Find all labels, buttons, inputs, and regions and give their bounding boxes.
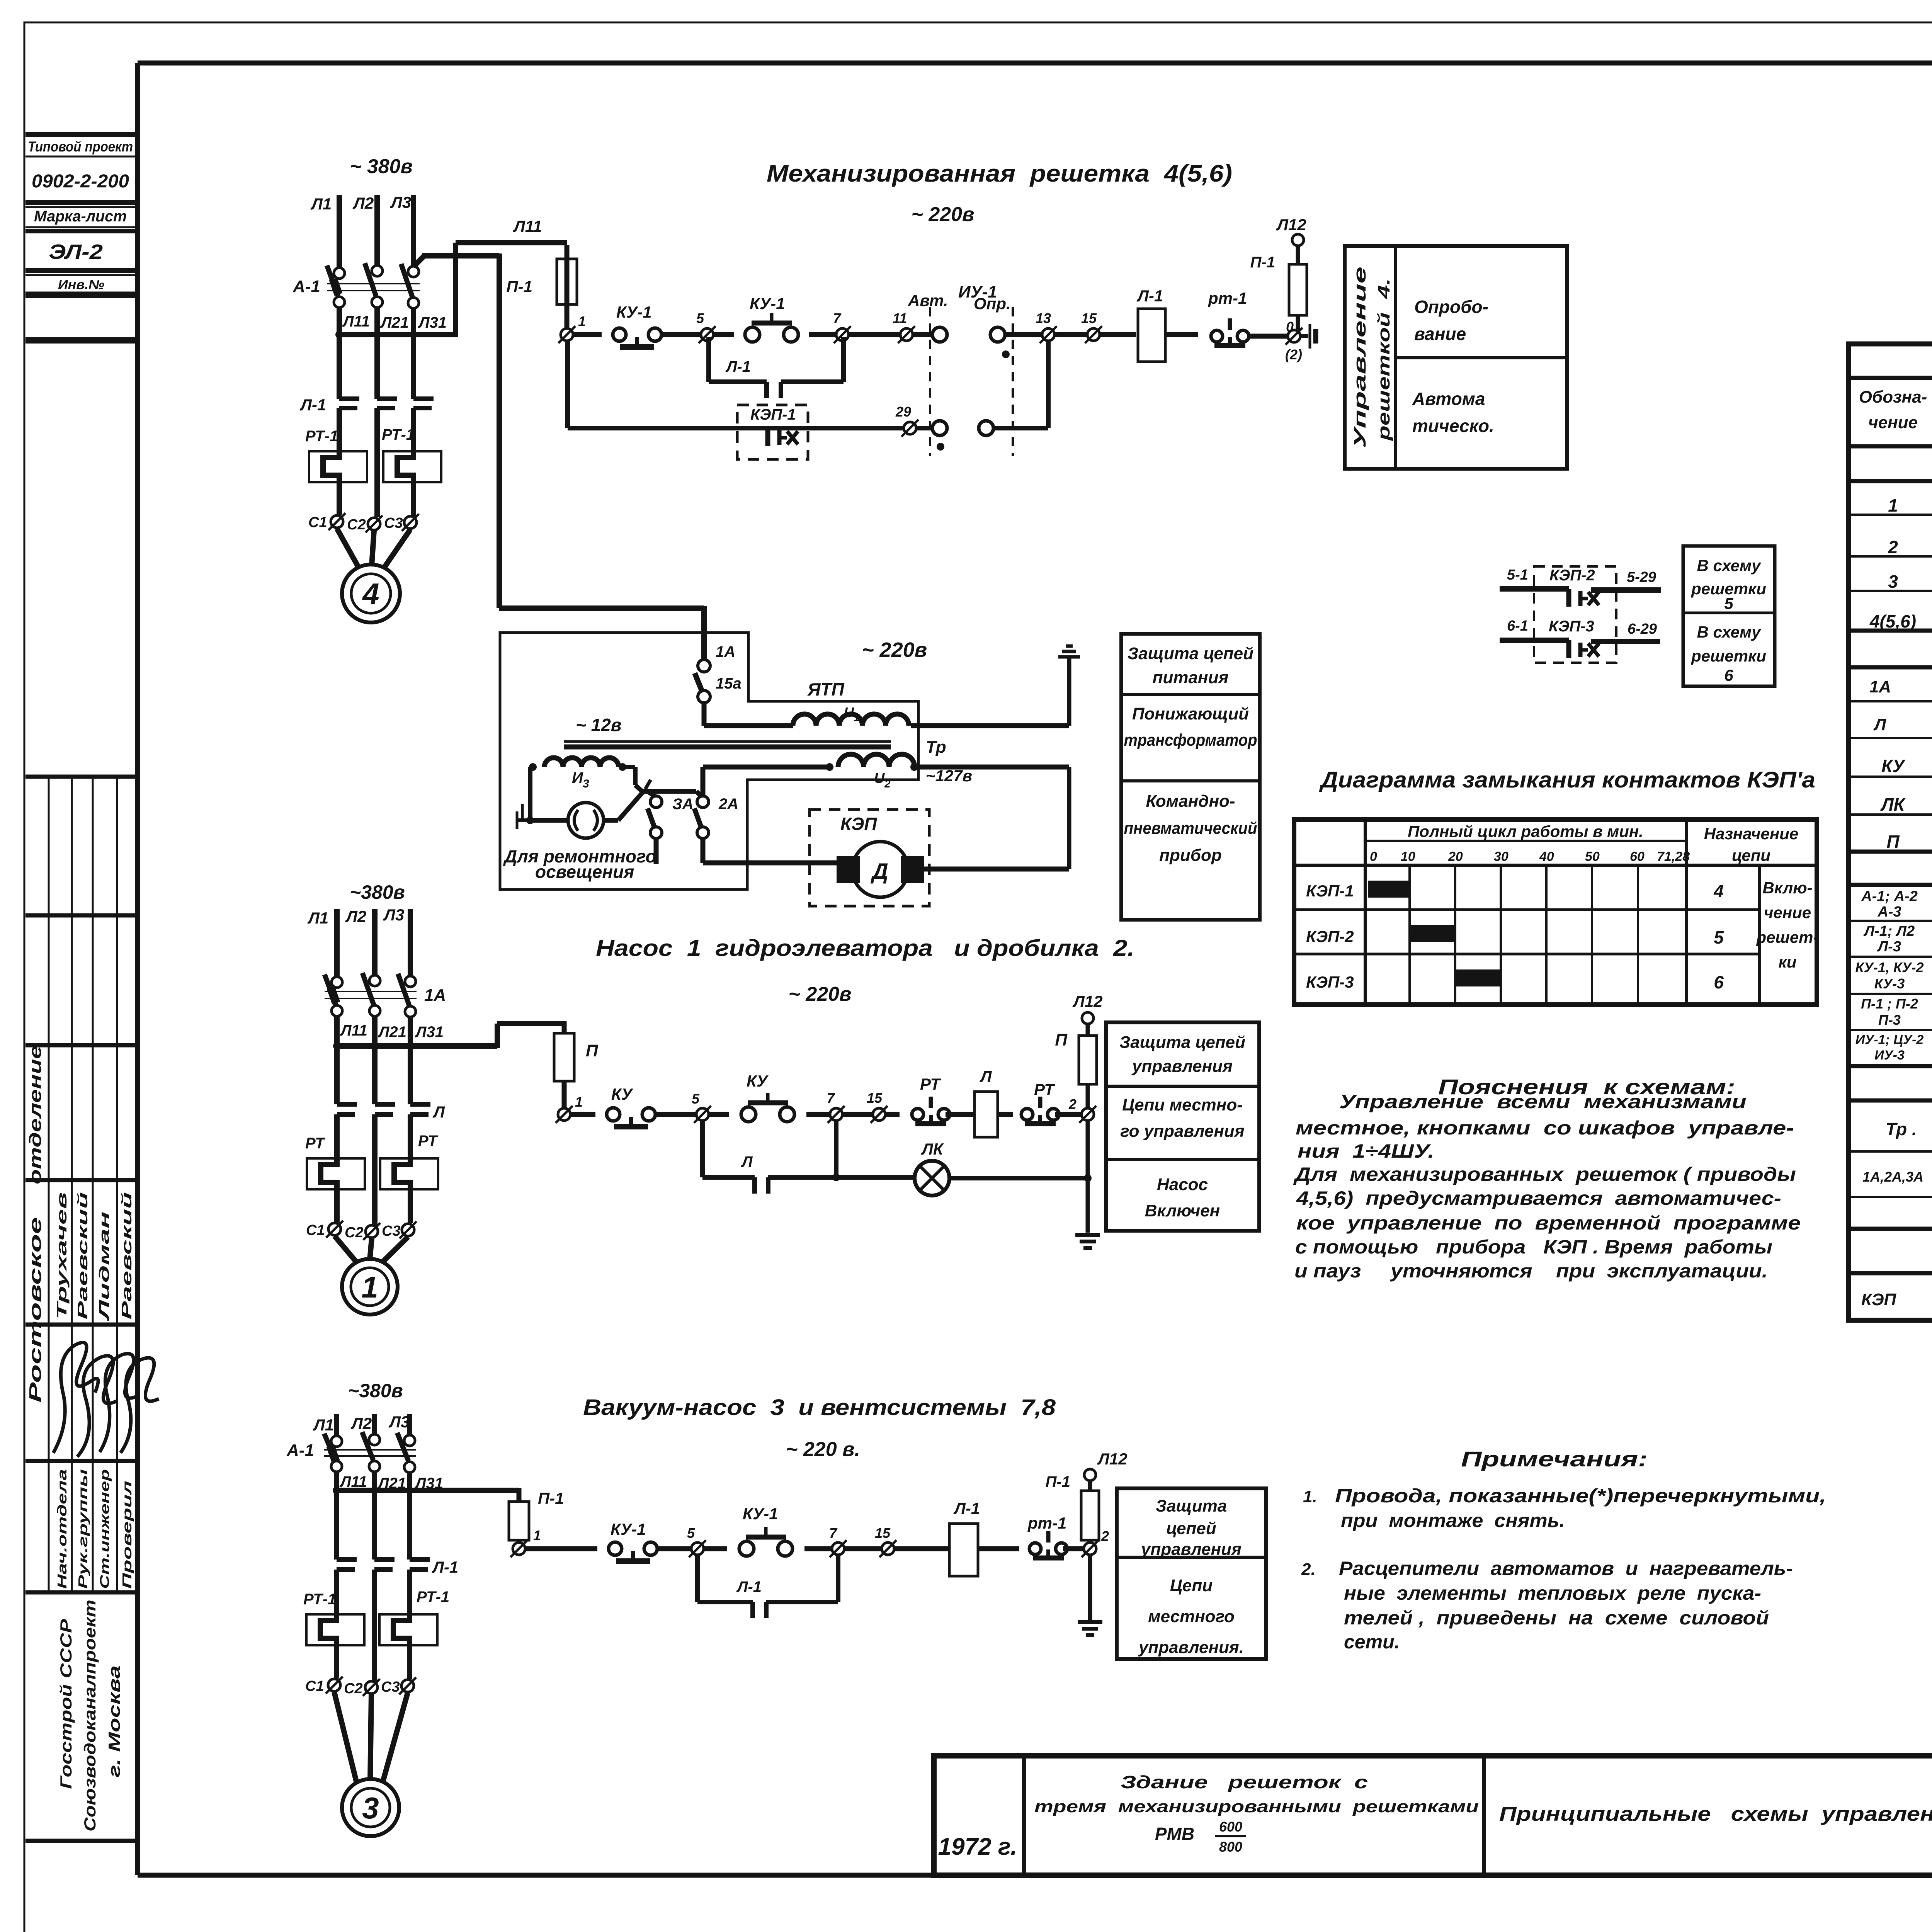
svg-text:Полный цикл работы в мин.: Полный цикл работы в мин. [1408, 822, 1643, 840]
svg-text:Примечания:: Примечания: [1461, 1447, 1648, 1471]
svg-text:Обозна-: Обозна- [1859, 388, 1927, 406]
svg-text:освещения: освещения [535, 862, 634, 882]
svg-text:П: П [586, 1041, 599, 1060]
svg-text:ИУ-1: ИУ-1 [958, 282, 997, 301]
svg-text:Л: Л [980, 1067, 992, 1085]
svg-text:Понижающий: Понижающий [1132, 704, 1249, 723]
svg-text:решеткой 4.: решеткой 4. [1374, 278, 1393, 441]
svg-text:П: П [1055, 1031, 1068, 1049]
svg-text:15а: 15а [716, 675, 742, 692]
svg-text:трансформатор: трансформатор [1124, 731, 1257, 750]
svg-text:Л31: Л31 [418, 314, 447, 331]
svg-text:местное, кнопками со шкафов: местное, кнопками со шкафов управле- [1296, 1117, 1794, 1139]
svg-text:71,28: 71,28 [1657, 849, 1690, 864]
svg-text:цепи: цепи [1732, 846, 1770, 864]
svg-text:П-1: П-1 [538, 1489, 564, 1507]
svg-text:Л3: Л3 [388, 1413, 410, 1431]
svg-text:Л21: Л21 [380, 314, 409, 331]
svg-text:П-1: П-1 [506, 277, 532, 296]
svg-text:11: 11 [893, 310, 907, 326]
svg-text:Л2: Л2 [350, 1414, 372, 1432]
svg-text:Защита цепей: Защита цепей [1119, 1033, 1245, 1052]
svg-text:прибор: прибор [1159, 846, 1222, 865]
svg-text:КУ-1, КУ-2: КУ-1, КУ-2 [1855, 959, 1923, 975]
svg-text:1: 1 [1888, 495, 1898, 515]
svg-text:Назначение: Назначение [1704, 825, 1798, 843]
svg-text:Л-1: Л-1 [432, 1558, 458, 1576]
svg-text:Расцепители автоматов и наг: Расцепители автоматов и нагреватель- [1339, 1558, 1793, 1579]
svg-text:А-1: А-1 [286, 1441, 314, 1460]
svg-text:КЭП-3: КЭП-3 [1549, 618, 1594, 635]
svg-text:Л-3: Л-3 [1877, 939, 1901, 955]
svg-text:РТ-1: РТ-1 [305, 428, 338, 445]
svg-text:С3: С3 [382, 1223, 401, 1239]
svg-text:Л12: Л12 [1276, 216, 1306, 234]
svg-text:РТ: РТ [418, 1133, 439, 1150]
svg-text:управления: управления [1140, 1540, 1242, 1559]
svg-text:7: 7 [827, 1090, 835, 1106]
svg-text:Защита: Защита [1156, 1497, 1227, 1515]
svg-text:В схему: В схему [1697, 556, 1762, 575]
svg-text:вание: вание [1414, 324, 1466, 344]
svg-text:ИУ-1; ЦУ-2: ИУ-1; ЦУ-2 [1855, 1032, 1924, 1047]
svg-text:отделение: отделение [26, 1045, 45, 1184]
svg-text:ЛК: ЛК [921, 1140, 944, 1158]
svg-text:решет-: решет- [1756, 928, 1818, 946]
svg-text:4(5,6): 4(5,6) [1869, 611, 1916, 631]
svg-text:1А: 1А [716, 643, 735, 660]
svg-text:В схему: В схему [1697, 623, 1762, 641]
svg-text:Провода, показанные(*)перечерк: Провода, показанные(*)перечеркнутыми, [1335, 1485, 1826, 1507]
svg-text:С3: С3 [381, 1679, 400, 1695]
svg-text:И: И [572, 769, 583, 786]
svg-text:Л2: Л2 [345, 907, 366, 925]
svg-text:телей , приведены на схеме: телей , приведены на схеме силовой [1344, 1607, 1769, 1629]
svg-text:и пауз уточняются при: и пауз уточняются при эксплуатации. [1294, 1260, 1768, 1282]
svg-text:С1: С1 [306, 1222, 325, 1238]
svg-text:6: 6 [1724, 666, 1733, 684]
svg-text:С3: С3 [384, 515, 403, 531]
svg-text:КУ-3: КУ-3 [1874, 976, 1905, 992]
svg-text:КЭП-2: КЭП-2 [1306, 927, 1354, 946]
svg-text:1: 1 [854, 712, 859, 723]
svg-text:Л-1: Л-1 [953, 1499, 980, 1517]
svg-text:Диаграмма замыкания контактов: Диаграмма замыкания контактов КЭП'а [1319, 767, 1815, 793]
svg-text:15: 15 [875, 1525, 891, 1541]
svg-text:РТ-1: РТ-1 [417, 1588, 449, 1605]
svg-text:П: П [1886, 832, 1900, 852]
svg-text:решетки: решетки [1691, 647, 1766, 665]
svg-text:А-3: А-3 [1877, 904, 1901, 920]
svg-text:Защита цепей: Защита цепей [1128, 644, 1253, 663]
svg-text:5: 5 [1714, 927, 1724, 947]
svg-text:Л-1: Л-1 [299, 396, 326, 414]
svg-text:3: 3 [362, 1791, 379, 1825]
svg-text:4: 4 [362, 577, 379, 611]
svg-text:15: 15 [867, 1090, 883, 1106]
svg-text:цепей: цепей [1166, 1519, 1216, 1538]
svg-text:5: 5 [1724, 594, 1733, 612]
svg-text:Л31: Л31 [415, 1024, 444, 1041]
svg-text:Командно-: Командно- [1146, 792, 1235, 811]
svg-text:5: 5 [696, 310, 704, 326]
svg-text:Нач.отдела: Нач.отдела [55, 1469, 69, 1589]
svg-text:Ростовское: Ростовское [26, 1217, 45, 1403]
svg-text:2: 2 [1068, 1096, 1077, 1112]
svg-text:П-1: П-1 [1250, 254, 1275, 271]
svg-text:тремя механизированными реше: тремя механизированными решетками [1034, 1797, 1479, 1816]
svg-text:Л12: Л12 [1097, 1450, 1128, 1468]
svg-text:Проверил: Проверил [120, 1481, 134, 1589]
svg-text:А-1; А-2: А-1; А-2 [1861, 888, 1918, 905]
svg-text:ЗА: ЗА [672, 796, 694, 813]
svg-text:П-1: П-1 [1046, 1473, 1070, 1490]
svg-text:тическо.: тическо. [1412, 416, 1494, 436]
svg-text:~ 380в: ~ 380в [350, 155, 413, 178]
svg-text:Насос: Насос [1157, 1175, 1208, 1194]
svg-text:Л11: Л11 [340, 1022, 367, 1039]
svg-text:Лидман: Лидман [96, 1211, 112, 1322]
svg-text:КЭП-3: КЭП-3 [1306, 973, 1354, 991]
svg-text:г. Москва: г. Москва [105, 1665, 123, 1777]
svg-text:С1: С1 [305, 1678, 324, 1694]
svg-text:Механизированная решетка 4(5: Механизированная решетка 4(5,6) [767, 160, 1232, 187]
svg-text:кое управление по временной: кое управление по временной программе [1296, 1212, 1801, 1234]
svg-text:чение: чение [1764, 903, 1811, 922]
svg-text:5: 5 [692, 1091, 700, 1107]
svg-text:800: 800 [1219, 1839, 1242, 1855]
svg-text:~ 220в: ~ 220в [862, 638, 927, 662]
svg-text:29: 29 [895, 404, 911, 420]
svg-text:Л-1; Л2: Л-1; Л2 [1863, 923, 1915, 939]
svg-text:сети.: сети. [1344, 1631, 1400, 1653]
svg-text:3: 3 [583, 777, 589, 790]
svg-text:~ 220 в.: ~ 220 в. [786, 1438, 860, 1461]
svg-text:~380в: ~380в [348, 1380, 403, 1401]
svg-text:Л: Л [741, 1153, 753, 1170]
svg-text:Здание решеток с: Здание решеток с [1121, 1772, 1368, 1792]
svg-text:15: 15 [1081, 310, 1097, 326]
svg-text:Для механизированных решеток: Для механизированных решеток ( приводы [1293, 1163, 1796, 1185]
svg-text:Л: Л [432, 1103, 445, 1121]
svg-text:питания: питания [1153, 668, 1229, 687]
svg-text:КЭП: КЭП [840, 814, 877, 834]
svg-text:1: 1 [533, 1527, 541, 1543]
svg-text:Л1: Л1 [307, 909, 328, 927]
svg-text:Рук.группы: Рук.группы [76, 1469, 90, 1589]
svg-text:Госстрой СССР: Госстрой СССР [57, 1619, 75, 1789]
svg-text:2А: 2А [718, 796, 738, 813]
svg-text:Тр .: Тр . [1886, 1119, 1917, 1139]
svg-text:Л12: Л12 [1072, 992, 1103, 1010]
svg-text:ИУ-3: ИУ-3 [1874, 1048, 1905, 1063]
svg-text:5-1: 5-1 [1507, 567, 1528, 583]
svg-text:П-1 ; П-2: П-1 ; П-2 [1861, 996, 1918, 1012]
svg-text:местного: местного [1148, 1607, 1235, 1626]
svg-text:~ 220в: ~ 220в [789, 983, 852, 1005]
svg-text:Л1: Л1 [313, 1416, 334, 1434]
svg-text:С2: С2 [347, 517, 366, 533]
svg-text:С1: С1 [308, 514, 327, 531]
svg-text:КУ-1: КУ-1 [743, 1505, 778, 1523]
svg-text:13: 13 [1036, 310, 1051, 326]
svg-text:КУ: КУ [1881, 756, 1906, 776]
svg-text:4: 4 [1713, 881, 1724, 901]
svg-text:КУ: КУ [611, 1085, 634, 1103]
svg-text:П-3: П-3 [1878, 1012, 1901, 1028]
svg-text:КУ-1: КУ-1 [616, 303, 652, 321]
svg-text:20: 20 [1448, 849, 1463, 864]
svg-text:1.: 1. [1303, 1487, 1317, 1506]
svg-text:управления.: управления. [1138, 1638, 1244, 1657]
svg-text:Управление всеми механизмами: Управление всеми механизмами [1339, 1091, 1747, 1112]
svg-text:Л-1: Л-1 [736, 1578, 762, 1595]
svg-text:Л3: Л3 [390, 193, 411, 211]
svg-text:РТ: РТ [1034, 1080, 1055, 1099]
svg-text:РТ: РТ [305, 1135, 326, 1152]
svg-text:Л11: Л11 [342, 313, 370, 330]
svg-text:Л1: Л1 [310, 195, 332, 213]
svg-text:рт-1: рт-1 [1027, 1514, 1066, 1532]
svg-text:1А: 1А [424, 986, 446, 1005]
svg-text:40: 40 [1539, 849, 1554, 864]
svg-text:30: 30 [1494, 849, 1509, 864]
svg-text:1972 г.: 1972 г. [938, 1833, 1017, 1860]
svg-text:РТ-1: РТ-1 [303, 1591, 336, 1608]
svg-text:КУ-1: КУ-1 [750, 294, 785, 313]
svg-text:ЛК: ЛК [1880, 794, 1906, 815]
svg-text:ЭЛ-2: ЭЛ-2 [49, 240, 103, 264]
svg-text:Трухачев: Трухачев [54, 1192, 70, 1320]
svg-text:Управление: Управление [1350, 267, 1369, 448]
svg-text:Инв.№: Инв.№ [58, 277, 104, 292]
svg-text:Л-1: Л-1 [725, 358, 751, 375]
svg-text:Раевский: Раевский [119, 1192, 134, 1320]
svg-text:Л21: Л21 [378, 1024, 406, 1041]
svg-text:ния 1÷4ШУ.: ния 1÷4ШУ. [1298, 1140, 1434, 1162]
svg-text:1: 1 [575, 1094, 583, 1110]
svg-text:С2: С2 [345, 1225, 364, 1241]
svg-text:3: 3 [1888, 571, 1898, 592]
svg-text:0902-2-200: 0902-2-200 [32, 171, 129, 192]
svg-text:КЭП: КЭП [1861, 1290, 1897, 1309]
svg-text:Л2: Л2 [352, 194, 374, 212]
svg-text:ные элементы тепловых реле: ные элементы тепловых реле пуска- [1344, 1582, 1761, 1604]
svg-text:U: U [874, 770, 885, 786]
svg-text:Вакуум-насос 3 и вентсистемы: Вакуум-насос 3 и вентсистемы 7,8 [583, 1395, 1056, 1420]
svg-text:1А: 1А [1869, 677, 1891, 696]
svg-text:50: 50 [1585, 849, 1600, 864]
svg-text:РТ-1: РТ-1 [382, 426, 415, 443]
svg-text:7: 7 [829, 1525, 838, 1541]
svg-text:го управления: го управления [1120, 1122, 1244, 1141]
svg-text:КУ: КУ [747, 1072, 769, 1090]
svg-text:6: 6 [1714, 972, 1724, 992]
svg-text:С2: С2 [344, 1680, 363, 1697]
svg-text:Цепи: Цепи [1170, 1576, 1213, 1595]
svg-text:Цепи местно-: Цепи местно- [1122, 1095, 1243, 1114]
svg-text:2.: 2. [1301, 1560, 1316, 1579]
svg-text:с помощью прибора КЭП . Вр: с помощью прибора КЭП . Время работы [1295, 1236, 1772, 1258]
svg-text:(2): (2) [1285, 347, 1302, 362]
svg-text:60: 60 [1630, 849, 1645, 864]
svg-text:чение: чение [1868, 413, 1918, 432]
svg-text:КУ-1: КУ-1 [611, 1520, 646, 1538]
svg-text:А-1: А-1 [293, 277, 320, 296]
svg-text:5-29: 5-29 [1627, 569, 1656, 585]
svg-text:U: U [844, 704, 854, 720]
svg-text:Авт.: Авт. [908, 291, 948, 310]
svg-text:4,5,6) предусматривается авт: 4,5,6) предусматривается автоматичес- [1296, 1187, 1781, 1209]
svg-text:Л11: Л11 [513, 217, 542, 235]
svg-text:5: 5 [687, 1525, 695, 1541]
svg-text:Л3: Л3 [383, 906, 404, 924]
svg-text:КЭП-1: КЭП-1 [1306, 882, 1354, 900]
svg-text:управления: управления [1131, 1057, 1233, 1076]
svg-text:6-1: 6-1 [1507, 618, 1528, 634]
svg-text:КЭП-1: КЭП-1 [750, 406, 796, 423]
svg-text:Союзводоканалпроект: Союзводоканалпроект [81, 1600, 99, 1832]
svg-text:Автома: Автома [1412, 389, 1485, 409]
svg-text:пневматический: пневматический [1124, 819, 1257, 838]
svg-text:0: 0 [1286, 319, 1294, 335]
svg-text:ЯТП: ЯТП [807, 679, 845, 699]
svg-text:Типовой проект: Типовой проект [28, 139, 133, 155]
svg-text:ки: ки [1779, 953, 1797, 971]
svg-text:10: 10 [1401, 849, 1415, 864]
svg-text:~ 12в: ~ 12в [576, 715, 622, 735]
svg-text:2: 2 [1101, 1528, 1109, 1544]
svg-text:7: 7 [833, 310, 842, 326]
svg-text:Включен: Включен [1145, 1201, 1220, 1220]
svg-text:2: 2 [1888, 537, 1898, 557]
svg-text:~380в: ~380в [350, 881, 405, 903]
svg-text:Д: Д [870, 859, 888, 884]
svg-text:РТ: РТ [920, 1075, 941, 1093]
svg-text:1: 1 [361, 1270, 378, 1304]
svg-text:Раевский: Раевский [75, 1192, 90, 1320]
svg-text:0: 0 [1370, 849, 1377, 864]
svg-text:1А,2А,3А: 1А,2А,3А [1862, 1169, 1923, 1185]
svg-text:~ 220в: ~ 220в [912, 203, 975, 226]
svg-text:Л: Л [1873, 715, 1886, 734]
svg-text:600: 600 [1219, 1819, 1242, 1835]
svg-text:РМВ: РМВ [1155, 1824, 1194, 1844]
svg-text:КЭП-2: КЭП-2 [1549, 567, 1595, 584]
svg-text:Ст.инженер: Ст.инженер [97, 1469, 112, 1589]
svg-text:Тр: Тр [926, 738, 946, 757]
svg-text:6-29: 6-29 [1628, 621, 1657, 637]
svg-text:Вклю-: Вклю- [1762, 879, 1812, 897]
svg-text:рт-1: рт-1 [1208, 289, 1247, 307]
svg-text:Опробо-: Опробо- [1414, 297, 1488, 317]
svg-text:1: 1 [578, 313, 586, 329]
svg-text:Насос 1 гидроэлеватора и д: Насос 1 гидроэлеватора и дробилка 2. [596, 935, 1134, 961]
svg-text:Л-1: Л-1 [1136, 287, 1163, 305]
svg-text:при монтаже снять.: при монтаже снять. [1341, 1510, 1565, 1531]
svg-text:Марка-лист: Марка-лист [34, 208, 127, 225]
svg-text:Принципиальные схемы управл: Принципиальные схемы управления механизм… [1499, 1803, 1932, 1825]
